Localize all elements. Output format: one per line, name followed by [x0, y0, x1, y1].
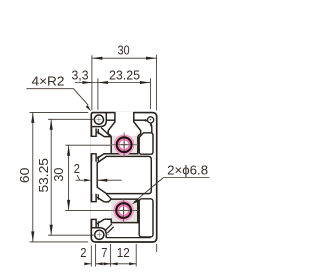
slot1 lower undercut edge: [97, 156, 99, 162]
top-right tab end junction: [145, 120, 147, 121]
bottom-left boss center cross: [97, 234, 102, 236]
chamber3 (bottom right hollow): [139, 199, 153, 237]
dim 2 wall: leader: [77, 175, 80, 180]
bottom-left boss outline: [91, 228, 106, 238]
bottom inner wall line: [106, 237, 150, 239]
left slot2 opening channel (air): [91, 202, 98, 219]
chamber2 (middle hollow): [97, 156, 151, 193]
dim 2 wall: inner arrow tail: [97, 179, 122, 181]
60 arrows: [31, 112, 34, 123]
bottom ext line x=95.6: [95, 244, 97, 267]
left slot2 upper lip tongue: [92, 194, 97, 202]
svg-text:2×ϕ6.8: 2×ϕ6.8: [167, 162, 208, 177]
left slot2 lower lip tongue: [92, 219, 97, 227]
top-right boss circle: [148, 117, 154, 123]
top-left boss center cross: [96, 119, 101, 121]
cavity2 gray: [111, 199, 138, 223]
dim 53.25: line: [50, 119, 52, 235]
web wall boss to cavity1: [101, 128, 110, 137]
dim 2 wall: outer arrow tail: [76, 179, 87, 181]
bottom ext line x=136.2: [135, 244, 137, 267]
wall chamber2 to cavity2: [106, 194, 111, 199]
2xphi6.8 leader: [134, 178, 164, 203]
slot2 lower undercut edge: [97, 221, 99, 227]
53.25 arrows: [50, 119, 53, 130]
bottom-left boss circle: [95, 230, 104, 239]
svg-text:2: 2: [74, 161, 80, 176]
left slot1 dovetail strokes: [97, 132, 111, 159]
30 top arrows: [92, 57, 103, 60]
arrowheads: [31, 57, 156, 266]
bottom 12 arrows: [111, 262, 118, 265]
svg-text:7: 7: [101, 245, 107, 260]
cavity1 outline stroke: [111, 136, 138, 154]
svg-text:60: 60: [17, 168, 32, 184]
cavity2 + left arm2 (air, gray fill): [97, 197, 138, 224]
2xphi6.8 arrow: [132, 199, 140, 205]
ext line 3,3 right / 23.25 left: [97, 78, 99, 110]
top right tab underside: [134, 119, 146, 121]
ext line 23.25 right: [149, 78, 151, 109]
dim 53.25: bottom ext line: [48, 234, 94, 236]
dim 30 top: left ext line: [91, 55, 93, 110]
hole 2 (2xphi6.8 bottom): [110, 198, 138, 223]
top-right inner corner wall: [145, 120, 151, 133]
chamber1 (top right hollow): [139, 133, 153, 154]
top-left boss circle: [94, 115, 103, 124]
dim 30 vert: upper ext line: [65, 144, 110, 146]
web wall boss to cavity2: [105, 224, 112, 231]
svg-text:3,3: 3,3: [72, 68, 89, 83]
dim 30 vert: lower ext line: [65, 209, 110, 211]
dim 60: bottom ext line: [30, 241, 89, 243]
svg-text:23.25: 23.25: [109, 68, 140, 83]
top-right boss center dot: [150, 119, 151, 120]
3,3 arrows: [82, 81, 92, 84]
slot1 upper undercut edge: [97, 129, 99, 135]
dim 60: line: [32, 112, 34, 242]
svg-text:30: 30: [51, 168, 66, 182]
dim 23.25 / 3,3 line: [75, 82, 150, 84]
left slot1 upper lip tongue: [92, 128, 97, 136]
svg-text:4×R2: 4×R2: [32, 74, 65, 89]
2xphi6.8 label underline: [164, 177, 210, 179]
profile outer body: [91, 113, 156, 242]
web wall boss to cavity2 second line: [107, 227, 113, 233]
23.25 right arrow: [140, 81, 151, 84]
bottom dim line 2: [85, 263, 92, 265]
top left tab underside: [106, 119, 115, 121]
bottom dim line 7+12: [96, 263, 137, 265]
bottom ext line x=110.6: [110, 244, 112, 267]
bottom 7 arrows: [96, 262, 103, 265]
svg-text:30: 30: [118, 43, 130, 58]
left slot2 dovetail strokes: [97, 197, 104, 224]
left slot1 opening channel (air): [91, 137, 98, 153]
dim 53.25: top ext line: [48, 118, 93, 120]
slot2 upper undercut edge: [97, 194, 99, 200]
bottom right short ext line: [156, 244, 158, 252]
2 wall arrows: [84, 179, 91, 182]
dim 30 top: right ext line: [156, 55, 158, 111]
cavity1 gray: [111, 136, 138, 154]
bottom ext line x=91.3: [90, 246, 92, 267]
top slot outline stroke: [108, 112, 141, 136]
top-left boss outline: [91, 113, 106, 127]
hole 1 (2xphi6.8 top): [110, 132, 138, 157]
top T-slot + cavity1 + left arm (air, gray fill): [97, 112, 141, 159]
svg-text:53.25: 53.25: [36, 158, 51, 193]
30 vert arrows: [67, 145, 70, 156]
svg-text:2: 2: [80, 245, 86, 260]
4xR2 leader underline: [27, 89, 89, 106]
left slot1 lower lip tongue: [92, 154, 97, 162]
bottom 2 arrow: [84, 262, 91, 265]
svg-text:12: 12: [117, 245, 130, 260]
top-right boss tick: [149, 124, 151, 127]
dim 30 vert: line: [68, 145, 70, 210]
dim 30 top: line: [92, 57, 157, 59]
cavity2 outline stroke: [104, 199, 138, 223]
dim 60: top ext line: [30, 111, 89, 113]
4xR2 arrow: [86, 105, 92, 111]
